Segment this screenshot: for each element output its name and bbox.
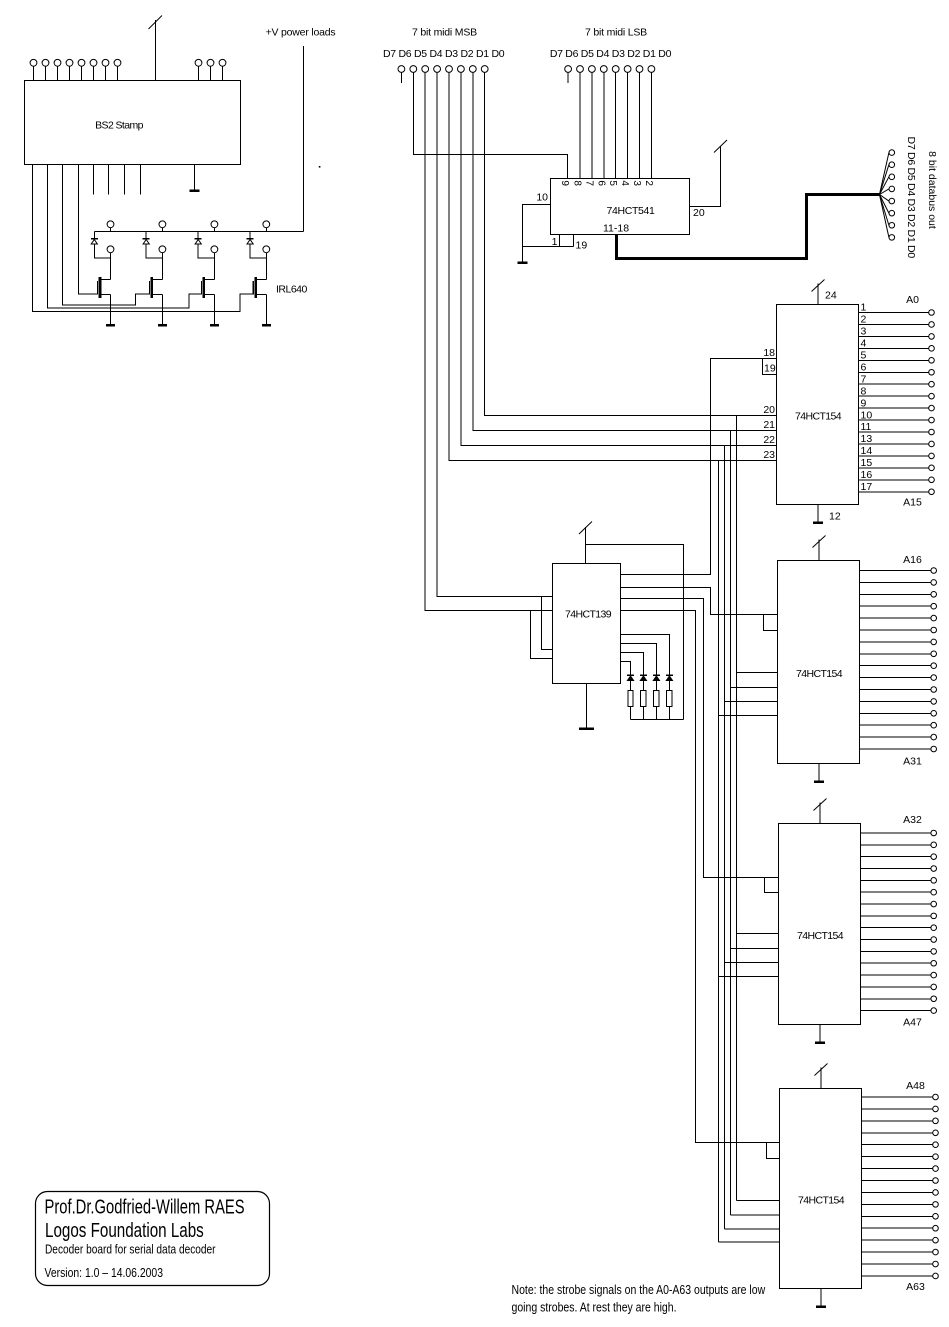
U8 output 4 terminal <box>933 1130 939 1136</box>
svg-text:23: 23 <box>763 449 775 461</box>
wire source Q2 to ground <box>161 295 163 323</box>
wire resistor R3 to +V bus <box>655 706 657 719</box>
wire MSB D5 dogleg to U3 second half <box>531 611 553 659</box>
ground U4 pin 12 <box>813 505 823 523</box>
wire source Q1 to ground <box>110 295 112 323</box>
U8 output 16 terminal <box>933 1261 939 1267</box>
wire U8 output 4 <box>862 1132 933 1134</box>
svg-text:7 bit midi LSB: 7 bit midi LSB <box>585 27 647 39</box>
IC U6 74HCT154 body <box>778 561 860 764</box>
wire databus fan to out D2 <box>880 195 889 214</box>
svg-text:6: 6 <box>861 361 867 373</box>
wire 8-bit databus (thick) from U2 outputs <box>617 195 880 259</box>
wire U4 output 15 <box>859 467 929 469</box>
U6 output 10 terminal <box>931 675 937 681</box>
MSB D3 terminal <box>446 66 453 73</box>
wire U7 output 14 <box>861 974 931 976</box>
wire U7 pin 20 data input <box>737 933 779 935</box>
wire diode D6 to resistor R2 <box>642 681 644 691</box>
svg-text:11-18: 11-18 <box>603 223 629 235</box>
wire MSB D5 to U3 select <box>425 72 552 610</box>
ground Q2 source <box>158 323 167 326</box>
LSB D7 terminal <box>565 66 572 73</box>
wire U4 output 6 <box>859 371 929 373</box>
U7 output 7 terminal <box>931 901 937 907</box>
U4 output 7 terminal <box>929 381 935 387</box>
wire U7 output 8 <box>861 915 931 917</box>
U6 output 7 terminal <box>931 639 937 645</box>
wire U4 output 4 <box>859 347 929 349</box>
wire databus fan to out D5 <box>880 177 889 195</box>
wire U3 output 7 to pull-up <box>621 653 644 676</box>
power +V on U6 pin 24 <box>813 536 826 561</box>
svg-text:BS2 Stamp: BS2 Stamp <box>95 120 143 132</box>
diode D6 (pull-up) <box>640 675 647 680</box>
wire LSB D1 to U2 pin 3 <box>639 72 641 178</box>
wire U7 pin 22 data input <box>725 962 779 964</box>
BS2 bottom stub 4 <box>140 165 142 195</box>
wire drain node Q1 <box>110 258 112 279</box>
wire source Q3 to ground <box>213 295 215 323</box>
wire U8 pin 22 data input <box>725 1228 780 1230</box>
wire U4 output 10 <box>859 419 929 421</box>
stray dot <box>319 166 321 168</box>
wire U6 pin 23 data input <box>719 715 778 717</box>
wire databus fan to out D3 <box>880 195 889 202</box>
LSB D1 terminal <box>636 66 643 73</box>
wire U7 pin 21 data input <box>731 948 779 950</box>
wire U4 output 8 <box>859 395 929 397</box>
svg-text:12: 12 <box>829 511 841 523</box>
MSB D0 terminal <box>481 66 488 73</box>
svg-text:IRL640: IRL640 <box>276 284 308 296</box>
U4 output 16 terminal <box>929 477 935 483</box>
title line 1 <box>45 1195 245 1218</box>
U4 output 17 terminal <box>929 489 935 495</box>
diode D1 (flyback) <box>91 239 98 244</box>
wire U6 output 7 <box>860 641 931 643</box>
diode D2 (flyback) <box>143 239 150 244</box>
svg-text:4: 4 <box>861 338 867 350</box>
wire U6 pin 21 data input <box>731 687 778 689</box>
wire U6 output 11 <box>860 689 931 691</box>
U6 output 9 terminal <box>931 663 937 669</box>
wire U6 output 16 <box>860 736 931 738</box>
ground Q1 source <box>106 323 115 326</box>
wire U4 output 1 <box>859 312 929 314</box>
wire U4 pin 23 data input <box>719 460 777 462</box>
svg-text:5: 5 <box>861 350 867 362</box>
databus out D1 terminal <box>889 222 895 228</box>
wire U8 pin 21 data input <box>731 1214 780 1216</box>
U4 output 5 terminal <box>929 358 935 364</box>
wire MSB D4 dogleg to U3 second half <box>542 597 553 650</box>
wire +V power loads vertical <box>303 46 305 232</box>
wire U6 output 1 <box>860 570 931 572</box>
svg-text:D7 D6 D5 D4 D3 D2 D1 D0: D7 D6 D5 D4 D3 D2 D1 D0 <box>550 48 672 60</box>
svg-text:7 bit midi MSB: 7 bit midi MSB <box>412 27 477 39</box>
U6 output 11 terminal <box>931 687 937 693</box>
wire resistor R4 to +V bus <box>668 706 670 719</box>
svg-text:19: 19 <box>764 363 776 375</box>
wire MSB D6 to U2 pin 9 <box>413 72 567 178</box>
svg-text:4: 4 <box>619 180 630 186</box>
BS2 top-right pin 3 wire <box>222 66 224 81</box>
U7 output 9 terminal <box>931 925 937 931</box>
BS2 top pin 7 wire <box>105 66 107 81</box>
wire U4 output 16 <box>859 479 929 481</box>
U4 output 15 terminal <box>929 465 935 471</box>
svg-text:+V power loads: +V power loads <box>266 27 336 39</box>
svg-text:D7 D6 D5 D4 D3 D2 D1 D0: D7 D6 D5 D4 D3 D2 D1 D0 <box>383 48 505 60</box>
load connector J3 + terminal wire <box>213 228 215 232</box>
wire U2 pin 20 to +V <box>690 146 721 207</box>
svg-text:A16: A16 <box>903 554 922 566</box>
wire U8 output 14 <box>862 1239 933 1241</box>
diode D4 to drain wire <box>250 244 266 258</box>
U8 output 5 terminal <box>933 1142 939 1148</box>
diode D7 (pull-up) <box>653 675 660 680</box>
wire databus fan to out D4 <box>880 189 889 195</box>
BS2 top pin 3 wire <box>57 66 59 81</box>
wire source Q4 to ground <box>265 295 267 323</box>
svg-text:A15: A15 <box>903 497 922 509</box>
databus out D2 terminal <box>889 210 895 216</box>
MSB D4 terminal <box>434 66 441 73</box>
U7 output 17 terminal <box>931 1008 937 1014</box>
svg-text:3: 3 <box>631 180 642 186</box>
svg-text:74HCT541: 74HCT541 <box>607 205 655 217</box>
wire U4 pin19 stub <box>763 359 777 375</box>
wire U7 output 10 <box>861 939 931 941</box>
U6 output 14 terminal <box>931 711 937 717</box>
U6 output 16 terminal <box>931 734 937 740</box>
diode D4 branch wire <box>249 232 251 239</box>
svg-text:Logos Foundation Labs: Logos Foundation Labs <box>45 1219 204 1242</box>
wire U4 pin 20 data input <box>737 415 777 417</box>
title line 4 <box>45 1266 164 1280</box>
U7 output 8 terminal <box>931 913 937 919</box>
wire U6 output 17 <box>860 748 931 750</box>
wire U8 output 8 <box>862 1180 933 1182</box>
wire U7 output 17 <box>861 1010 931 1012</box>
wire U2 pins 1,19 enable to ground <box>559 235 561 247</box>
wire BS2 to gate of Q4 <box>33 165 254 312</box>
wire U4 output 2 <box>859 323 929 325</box>
power +V on BS2 Stamp <box>149 16 163 81</box>
wire U4 output 13 <box>859 443 929 445</box>
U7 output 16 terminal <box>931 996 937 1002</box>
wire U3 output 2 to U6 enables <box>621 588 778 615</box>
IC U8 74HCT154 body <box>780 1089 862 1289</box>
wire MSB D0 to U4 pin 20 <box>485 72 777 415</box>
wire U4 output 7 <box>859 383 929 385</box>
wire U7 pin19 stub <box>765 878 779 893</box>
wire data D2 vertical bus <box>724 446 726 1230</box>
databus out D0 terminal <box>889 235 895 241</box>
svg-text:D7 D6 D5 D4 D3 D2 D1 D0: D7 D6 D5 D4 D3 D2 D1 D0 <box>905 137 917 259</box>
resistor R4 <box>667 690 672 706</box>
MSB D1 terminal <box>469 66 476 73</box>
svg-text:19: 19 <box>576 240 588 252</box>
svg-text:8: 8 <box>861 385 867 397</box>
power +V on U4 pin 24 <box>812 280 825 305</box>
load connector J1 + terminal wire <box>110 228 112 232</box>
diode D3 to drain wire <box>198 244 214 258</box>
BS2 top pin 3 terminal <box>54 59 61 66</box>
U7 output 6 terminal <box>931 889 937 895</box>
wire LSB D5 to U2 pin 7 <box>591 72 593 178</box>
svg-text:14: 14 <box>861 445 873 457</box>
resistor R3 <box>654 690 659 706</box>
svg-text:1: 1 <box>552 236 558 248</box>
wire U2 pin 19 stub <box>573 235 575 247</box>
wire U7 output 7 <box>861 903 931 905</box>
diode D3 branch wire <box>197 232 199 239</box>
load connector J4 + terminal wire <box>265 228 267 232</box>
wire BS2 to gate of Q2 <box>63 165 150 306</box>
wire diode D8 to resistor R4 <box>668 681 670 691</box>
wire U7 pin 23 data input <box>719 976 779 978</box>
wire MSB D2 to U4 pin 22 <box>461 72 777 445</box>
BS2 top pin 1 wire <box>33 66 35 81</box>
svg-text:3: 3 <box>861 326 867 338</box>
MSB D7 stub wire <box>400 72 402 83</box>
svg-text:17: 17 <box>861 481 873 493</box>
svg-text:Version: 1.0 – 14.06.2003: Version: 1.0 – 14.06.2003 <box>45 1266 164 1280</box>
svg-text:74HCT154: 74HCT154 <box>798 1195 845 1207</box>
BS2 top-right pin 1 wire <box>198 66 200 81</box>
svg-text:13: 13 <box>861 433 873 445</box>
load connector J1 + terminal <box>107 221 114 228</box>
BS2 top pin 8 terminal <box>114 59 121 66</box>
BS2 bottom stub 1 <box>93 165 95 195</box>
U4 output 1 terminal <box>929 310 935 316</box>
svg-text:A63: A63 <box>906 1281 925 1293</box>
wire databus fan to out D6 <box>880 165 889 195</box>
LSB D2 terminal <box>624 66 631 73</box>
U8 output 1 terminal <box>933 1094 939 1100</box>
svg-text:22: 22 <box>763 434 775 446</box>
wire U4 output 14 <box>859 455 929 457</box>
U7 output 4 terminal <box>931 866 937 872</box>
U6 output 15 terminal <box>931 722 937 728</box>
wire diode D7 to resistor R3 <box>655 681 657 691</box>
U8 output 11 terminal <box>933 1214 939 1220</box>
wire pull-up +V bus <box>631 719 684 721</box>
load connector J1 - terminal wire <box>110 253 112 259</box>
U4 output 8 terminal <box>929 393 935 399</box>
U7 output 13 terminal <box>931 960 937 966</box>
svg-text:10: 10 <box>861 409 873 421</box>
svg-text:A0: A0 <box>906 294 919 306</box>
LSB D0 terminal <box>648 66 655 73</box>
wire U6 output 5 <box>860 617 931 619</box>
U7 output 10 terminal <box>931 937 937 943</box>
wire drain node Q4 <box>265 258 267 279</box>
svg-text:2: 2 <box>861 314 867 326</box>
diode D5 (pull-up) <box>627 675 634 680</box>
wire U6 output 6 <box>860 629 931 631</box>
U8 output 9 terminal <box>933 1190 939 1196</box>
U6 output 3 terminal <box>931 592 937 598</box>
load connector J2 - terminal <box>159 246 166 253</box>
U7 output 15 terminal <box>931 984 937 990</box>
wire U6 output 2 <box>860 581 931 583</box>
wire +V branch to pull-up resistors <box>586 545 684 720</box>
wire databus fan to out D7 <box>880 153 889 195</box>
ground U8 pin 12 <box>816 1289 826 1307</box>
wire data D0 vertical bus <box>736 416 738 1201</box>
BS2 top-right pin 2 terminal <box>207 59 214 66</box>
svg-text:10: 10 <box>536 192 548 204</box>
BS2 top-right pin 2 wire <box>210 66 212 81</box>
svg-text:7: 7 <box>583 180 594 186</box>
LSB D7 stub wire <box>567 72 569 83</box>
svg-text:Note: the strobe signals on th: Note: the strobe signals on the A0-A63 o… <box>512 1284 766 1297</box>
U6 output 1 terminal <box>931 568 937 574</box>
wire U6 output 10 <box>860 677 931 679</box>
svg-text:16: 16 <box>861 469 873 481</box>
wire U8 output 10 <box>862 1203 933 1205</box>
U7 output 11 terminal <box>931 949 937 955</box>
BS2 top-right pin 3 terminal <box>219 59 226 66</box>
databus out D7 terminal <box>889 150 895 156</box>
LSB D4 terminal <box>600 66 607 73</box>
U4 output 13 terminal <box>929 441 935 447</box>
wire U8 output 5 <box>862 1144 933 1146</box>
power +V on U3 <box>579 522 592 564</box>
wire LSB D2 to U2 pin 4 <box>627 72 629 178</box>
resistor R2 <box>641 690 646 706</box>
wire U7 output 6 <box>861 891 931 893</box>
diode D2 to drain wire <box>146 244 162 258</box>
wire U8 output 6 <box>862 1156 933 1158</box>
BS2 top pin 4 terminal <box>66 59 73 66</box>
BS2 top pin 5 terminal <box>78 59 85 66</box>
svg-text:A32: A32 <box>903 814 922 826</box>
load connector J2 + terminal <box>159 221 166 228</box>
BS2 top pin 2 wire <box>45 66 47 81</box>
svg-text:8: 8 <box>572 180 583 186</box>
IC U7 74HCT154 body <box>779 824 861 1025</box>
wire diode D5 to resistor R1 <box>630 681 632 691</box>
wire resistor R1 to +V bus <box>630 706 632 719</box>
databus out D4 terminal <box>889 186 895 192</box>
wire U8 output 16 <box>862 1263 933 1265</box>
BS2 top pin 1 terminal <box>30 59 37 66</box>
wire U7 output 4 <box>861 868 931 870</box>
svg-text:Prof.Dr.Godfried-Willem RAES: Prof.Dr.Godfried-Willem RAES <box>45 1195 245 1218</box>
wire databus fan to out D0 <box>880 195 889 238</box>
U8 output 10 terminal <box>933 1202 939 1208</box>
svg-text:Decoder board for serial data: Decoder board for serial data decoder <box>45 1242 216 1256</box>
wire U8 pin 23 data input <box>719 1241 780 1243</box>
databus out D3 terminal <box>889 198 895 204</box>
wire U8 output 15 <box>862 1251 933 1253</box>
note text line 1 <box>512 1284 766 1297</box>
load connector J3 + terminal <box>211 221 218 228</box>
diode D1 to drain wire <box>94 244 110 258</box>
diode D3 (flyback) <box>195 239 202 244</box>
svg-text:18: 18 <box>763 347 775 359</box>
wire U3 output 5 to pull-up <box>621 635 670 676</box>
IC U4 74HCT154 body <box>777 305 859 505</box>
databus out D6 terminal <box>889 162 895 168</box>
ground Q4 source <box>262 323 271 326</box>
U8 output 17 terminal <box>933 1273 939 1279</box>
wire U3 output 6 to pull-up <box>621 644 657 676</box>
wire U6 output 9 <box>860 665 931 667</box>
IC U3 74HCT139 body <box>553 564 621 684</box>
wire U4 output 3 <box>859 335 929 337</box>
transistor Q1 IRL640 <box>98 277 111 298</box>
wire databus fan to out D1 <box>880 195 889 226</box>
wire U8 output 11 <box>862 1215 933 1217</box>
title line 2 <box>45 1219 204 1242</box>
wire U4 output 11 <box>859 431 929 433</box>
LSB D5 terminal <box>589 66 596 73</box>
U6 output 13 terminal <box>931 699 937 705</box>
svg-text:11: 11 <box>861 421 872 433</box>
wire MSB D1 to U4 pin 21 <box>473 72 777 430</box>
wire U7 output 1 <box>861 832 931 834</box>
databus out D5 terminal <box>889 174 895 180</box>
U8 output 14 terminal <box>933 1237 939 1243</box>
diode D1 branch wire <box>93 232 95 239</box>
U7 output 14 terminal <box>931 972 937 978</box>
IC U5 BS2 Stamp body <box>25 81 241 165</box>
wire U7 output 5 <box>861 879 931 881</box>
load connector J1 - terminal <box>107 246 114 253</box>
LSB D3 terminal <box>612 66 619 73</box>
U4 output 6 terminal <box>929 369 935 375</box>
svg-text:8 bit databus out: 8 bit databus out <box>926 151 938 229</box>
wire U2 enable bus <box>523 246 574 248</box>
svg-text:6: 6 <box>595 180 606 186</box>
title block frame <box>36 1192 270 1286</box>
wire U6 pin 20 data input <box>737 672 778 674</box>
BS2 bottom stub 2 <box>108 165 110 195</box>
wire U3 output 1 to U4 enables <box>621 359 777 575</box>
wire U8 pin 20 data input <box>737 1200 780 1202</box>
svg-text:20: 20 <box>693 207 705 219</box>
U8 output 2 terminal <box>933 1106 939 1112</box>
svg-text:A31: A31 <box>903 756 922 768</box>
BS2 bottom stub 3 <box>124 165 126 195</box>
U8 output 6 terminal <box>933 1154 939 1160</box>
svg-text:24: 24 <box>825 290 837 302</box>
MSB D6 terminal <box>410 66 417 73</box>
U7 output 5 terminal <box>931 878 937 884</box>
BS2 top pin 5 wire <box>81 66 83 81</box>
wire U8 output 7 <box>862 1168 933 1170</box>
wire U4 pin 21 data input <box>731 430 777 432</box>
wire U2 pin 10 to ground <box>523 205 551 262</box>
svg-text:5: 5 <box>607 180 618 186</box>
wire U6 pin 22 data input <box>725 701 778 703</box>
BS2 top pin 4 wire <box>69 66 71 81</box>
ground on BS2 Stamp <box>190 165 200 191</box>
wire U6 output 8 <box>860 653 931 655</box>
wire U8 output 17 <box>862 1275 933 1277</box>
wire U4 pin 22 data input <box>725 445 777 447</box>
wire U8 output 3 <box>862 1120 933 1122</box>
wire LSB D0 to U2 pin 2 <box>650 72 652 178</box>
ground Q3 source <box>210 323 219 326</box>
wire U8 output 9 <box>862 1191 933 1193</box>
wire U6 output 14 <box>860 712 931 714</box>
